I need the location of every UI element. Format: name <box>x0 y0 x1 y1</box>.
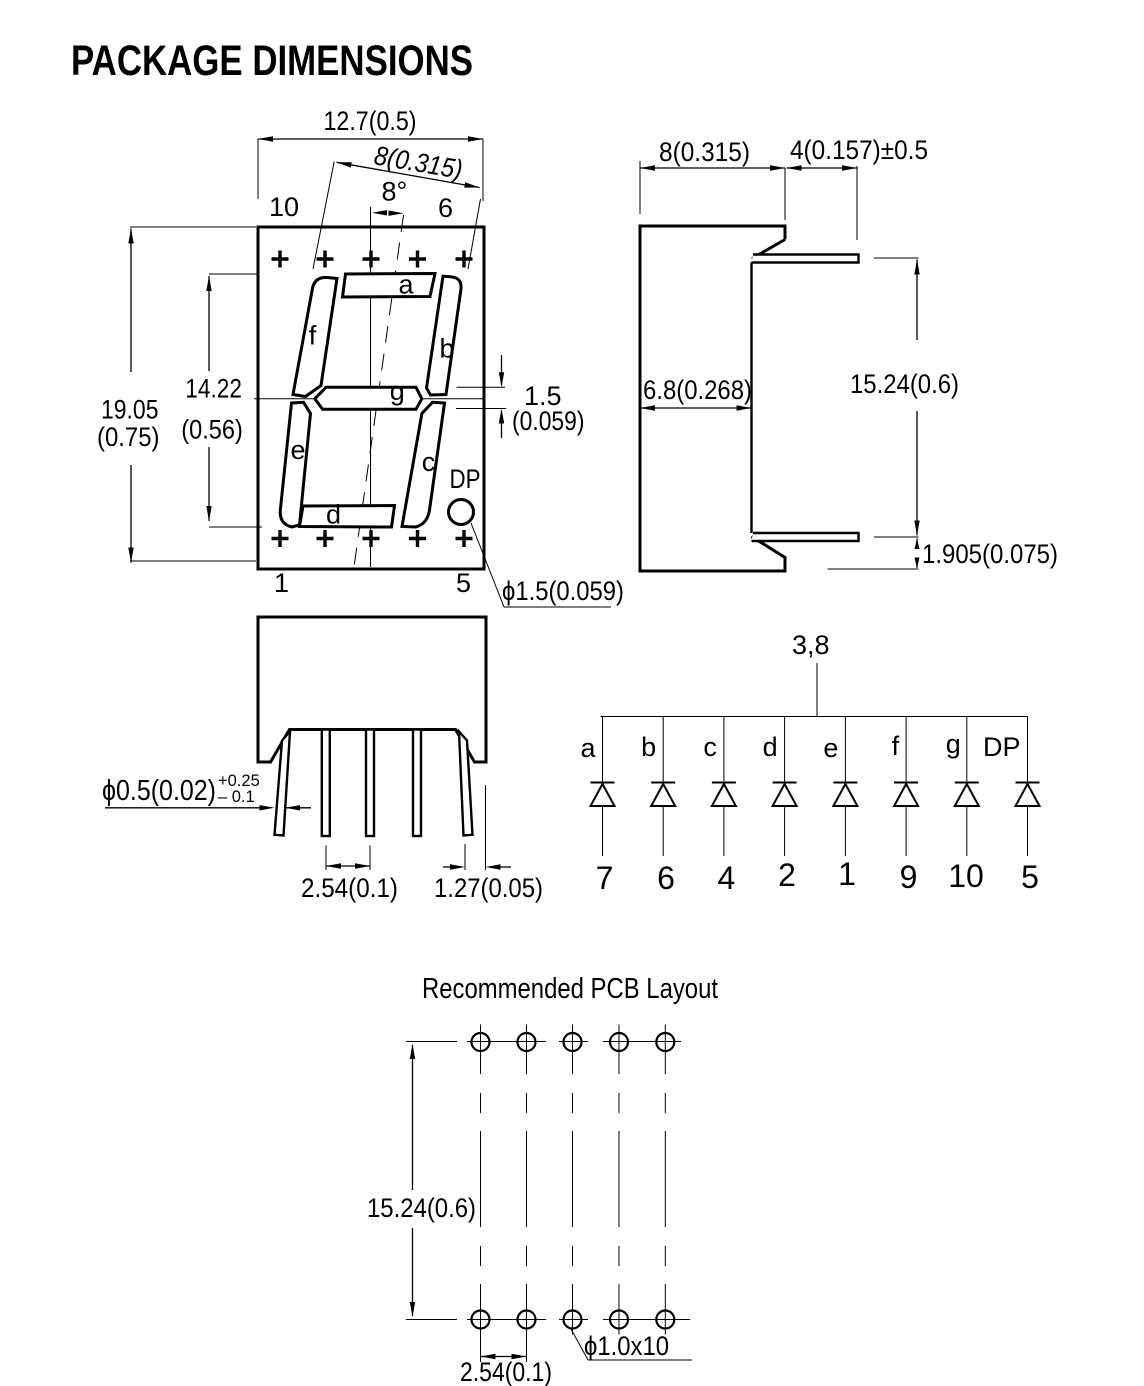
svg-text:e: e <box>291 435 306 465</box>
dimension 19.05(0.75) overall height <box>97 227 256 563</box>
pin 1 lead (splayed) <box>275 732 291 836</box>
segment f <box>293 277 337 396</box>
digit vertical centre line <box>370 207 372 567</box>
diode b (anode pin 6) <box>641 717 675 897</box>
svg-text:(0.059): (0.059) <box>512 406 585 436</box>
svg-text:10: 10 <box>948 858 984 894</box>
svg-text:– 0.1: – 0.1 <box>218 788 255 806</box>
diode DP (anode pin 5) <box>983 717 1040 896</box>
svg-text:6.8(0.268): 6.8(0.268) <box>643 375 752 405</box>
svg-text:2.54(0.1): 2.54(0.1) <box>460 1357 552 1386</box>
pin 5 lead (splayed) <box>459 732 473 836</box>
svg-text:(0.56): (0.56) <box>181 414 243 444</box>
svg-text:d: d <box>326 500 341 530</box>
package body front outline <box>258 227 484 569</box>
svg-text:4: 4 <box>718 860 736 896</box>
svg-text:d: d <box>763 732 778 762</box>
PCB holes bottom row <box>472 1311 675 1329</box>
segment c <box>402 402 445 527</box>
DP leader and dimension phi 1.5(0.059) <box>471 523 624 607</box>
svg-text:g: g <box>390 376 405 406</box>
svg-text:f: f <box>309 321 317 351</box>
package body side outline <box>640 226 785 571</box>
svg-text:g: g <box>946 729 961 759</box>
bottom mounting flange side <box>752 533 859 541</box>
svg-text:a: a <box>580 733 596 763</box>
dimension 8(0.315) body depth <box>640 137 785 220</box>
decimal point DP circle <box>449 500 474 525</box>
svg-text:14.22: 14.22 <box>185 374 242 404</box>
dimension 15.24(0.6) flange span <box>850 258 959 537</box>
svg-text:1: 1 <box>274 568 289 598</box>
diode c (anode pin 4) <box>703 717 736 897</box>
PCB holes top row <box>472 1033 675 1051</box>
svg-text:15.24(0.6): 15.24(0.6) <box>367 1193 476 1223</box>
dimension 2.54(0.1) lead pitch <box>301 846 398 904</box>
dimension 4(0.157)+-0.5 flange length <box>787 135 929 240</box>
PCB column centre line 1 <box>480 1025 482 1363</box>
svg-text:7: 7 <box>596 860 614 896</box>
svg-text:b: b <box>641 732 656 762</box>
package body bottom-view outline <box>258 617 486 762</box>
svg-text:4(0.157)±0.5: 4(0.157)±0.5 <box>790 135 928 165</box>
svg-text:2: 2 <box>778 857 796 893</box>
svg-text:c: c <box>422 447 436 477</box>
top mounting flange side <box>752 255 859 263</box>
dimension 8 degree tilt angle <box>372 177 407 216</box>
svg-text:6: 6 <box>657 860 675 896</box>
dimension phi 0.5(0.02) lead thickness <box>102 772 311 811</box>
svg-text:1.905(0.075): 1.905(0.075) <box>922 539 1058 569</box>
dimension phi 1.0 x10 hole size leader <box>571 1329 692 1361</box>
svg-text:ϕ0.5(0.02): ϕ0.5(0.02) <box>102 775 216 807</box>
svg-text:3,8: 3,8 <box>792 630 830 660</box>
svg-text:5: 5 <box>1021 859 1039 895</box>
svg-text:(0.75): (0.75) <box>97 422 160 452</box>
pin position marks top row (pins 10-6) <box>272 251 473 268</box>
svg-text:2.54(0.1): 2.54(0.1) <box>301 873 398 903</box>
PCB column centre line 2 <box>526 1025 528 1363</box>
PCB column centre line 5 <box>664 1025 666 1335</box>
PCB column centre line 3 <box>572 1025 574 1335</box>
diode d (anode pin 2) <box>763 717 797 894</box>
wire common from pins 3,8 <box>816 663 818 717</box>
segment g <box>315 387 422 409</box>
svg-text:ϕ1.5(0.059): ϕ1.5(0.059) <box>502 576 624 606</box>
svg-text:PACKAGE DIMENSIONS: PACKAGE DIMENSIONS <box>71 37 473 85</box>
svg-text:8°: 8° <box>382 177 408 207</box>
diode g (anode pin 10) <box>946 717 984 895</box>
svg-text:10: 10 <box>269 192 299 222</box>
svg-text:DP: DP <box>450 464 481 494</box>
dimension 2.54(0.1) hole pitch <box>460 1354 552 1386</box>
segment b <box>427 276 462 395</box>
PCB hole crosshair horizontals bottom row <box>406 1319 690 1321</box>
diode a (anode pin 7) <box>580 717 614 897</box>
pin 4 lead <box>413 730 421 837</box>
pin 2 lead <box>322 730 330 837</box>
svg-text:c: c <box>703 732 717 762</box>
svg-text:12.7(0.5): 12.7(0.5) <box>324 106 417 136</box>
svg-text:19.05: 19.05 <box>101 395 159 425</box>
dimension 1.27(0.05) end lead offset <box>434 785 543 903</box>
dimension 14.22(0.56) digit height <box>181 274 262 527</box>
dimension 15.24(0.6) row spacing <box>367 1044 476 1317</box>
dimension 8(0.315) slanted pin-row width <box>313 140 481 269</box>
svg-text:15.24(0.6): 15.24(0.6) <box>850 369 959 399</box>
segment e <box>280 402 310 527</box>
dimension 1.905(0.075) stand-off <box>828 539 1059 570</box>
PCB column centre line 4 <box>618 1025 620 1335</box>
svg-text:e: e <box>823 733 838 763</box>
svg-text:8(0.315): 8(0.315) <box>659 137 750 167</box>
digit mid horizontal reference line <box>254 398 484 400</box>
svg-text:1.27(0.05): 1.27(0.05) <box>434 873 543 903</box>
svg-text:1: 1 <box>838 856 856 892</box>
svg-text:5: 5 <box>456 568 471 598</box>
svg-text:Recommended PCB Layout: Recommended PCB Layout <box>422 973 718 1005</box>
svg-text:ϕ1.0x10: ϕ1.0x10 <box>584 1331 669 1361</box>
dimension 6.8(0.268) <box>640 375 752 411</box>
svg-text:DP: DP <box>983 732 1021 762</box>
svg-text:6: 6 <box>438 193 453 223</box>
pin 3 lead <box>366 730 374 837</box>
wire common bus <box>601 716 1028 718</box>
svg-text:9: 9 <box>900 859 918 895</box>
segment a <box>343 274 436 298</box>
diode e (anode pin 1) <box>823 717 857 893</box>
segment d <box>300 506 395 528</box>
svg-text:f: f <box>892 731 900 761</box>
svg-text:b: b <box>440 334 455 364</box>
diode f (anode pin 9) <box>892 717 919 896</box>
svg-text:a: a <box>399 270 415 300</box>
dimension 1.5(0.059) segment width <box>456 355 585 438</box>
dimension 12.7(0.5) overall width <box>258 106 483 201</box>
digit slanted centre line 8deg <box>354 215 404 567</box>
pin position marks bottom row (pins 1-5) <box>272 530 473 547</box>
PCB hole crosshair horizontals top row <box>406 1041 681 1043</box>
